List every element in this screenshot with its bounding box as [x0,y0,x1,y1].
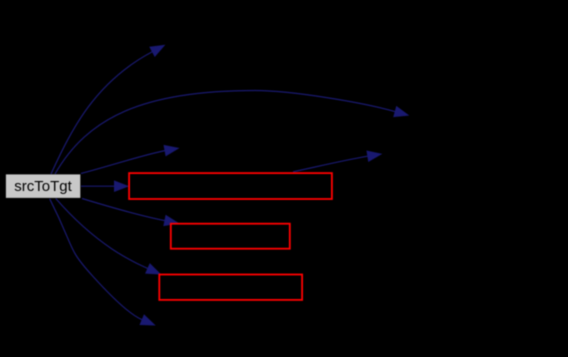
edge srcToTgt->n1 (top-left arrow) [51,45,165,174]
svg-text:srcToTgt: srcToTgt [14,178,72,195]
edge srcToTgt->n3 (mid-right arrow) [81,145,179,173]
edge srcToTgt->box3 [56,199,161,275]
node srcToTgt (gray root node) [6,174,80,198]
edge srcToTgt->n5 (bottom arrow) [50,199,155,325]
edge box1->n4 (upper-right arrow) [293,151,382,172]
edge srcToTgt->box1 (horizontal arrow) [81,181,128,192]
node box2 (red truncated node) [171,224,290,249]
edge srcToTgt->n2 (long top-right curve) [55,91,409,175]
edge srcToTgt->box2 [82,199,179,226]
node box3 (red truncated node) [159,275,302,300]
node box1 (red truncated node) [129,173,332,199]
